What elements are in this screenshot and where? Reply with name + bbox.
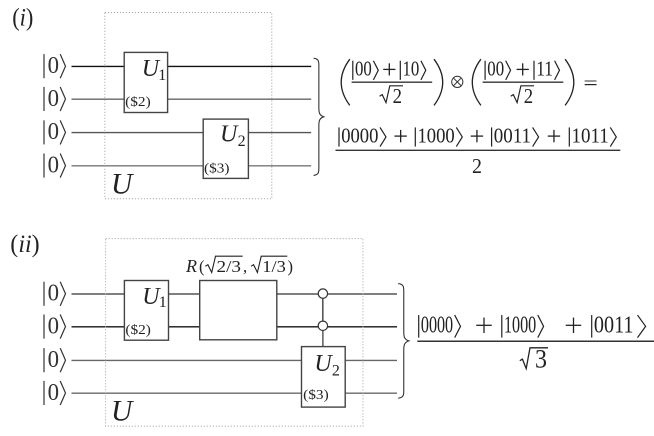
- svg-text:0011: 0011: [594, 312, 634, 339]
- svg-text:(ii): (ii): [10, 229, 39, 258]
- svg-text:0: 0: [48, 151, 59, 178]
- svg-text:0: 0: [48, 52, 59, 79]
- svg-text:U: U: [314, 351, 333, 377]
- svg-text:10: 10: [403, 58, 420, 81]
- svg-text:U: U: [111, 395, 134, 427]
- svg-text:($3): ($3): [303, 388, 329, 403]
- svg-text:11: 11: [536, 58, 553, 81]
- svg-text:3: 3: [535, 345, 547, 374]
- svg-text:1/3: 1/3: [262, 257, 286, 276]
- svg-text:0: 0: [48, 379, 59, 406]
- svg-text:2: 2: [524, 85, 533, 108]
- svg-text:U: U: [111, 168, 134, 200]
- svg-text:0011: 0011: [494, 124, 531, 147]
- svg-text:1011: 1011: [572, 124, 609, 147]
- svg-text:0: 0: [48, 280, 59, 307]
- svg-text:2: 2: [332, 362, 340, 379]
- svg-text:0: 0: [48, 85, 59, 112]
- svg-text:2/3: 2/3: [217, 257, 242, 276]
- svg-text:(: (: [199, 257, 205, 276]
- svg-text:1000: 1000: [418, 124, 455, 147]
- svg-text:00: 00: [487, 58, 504, 81]
- svg-text:,: ,: [243, 257, 247, 276]
- svg-text:0: 0: [48, 346, 59, 373]
- svg-text:1: 1: [158, 67, 166, 84]
- svg-text:1: 1: [159, 294, 167, 311]
- svg-text:($3): ($3): [204, 161, 230, 176]
- svg-text:U: U: [220, 121, 239, 147]
- svg-text:2: 2: [472, 155, 482, 178]
- svg-text:($2): ($2): [125, 95, 151, 110]
- svg-text:1000: 1000: [504, 312, 536, 339]
- svg-text:($2): ($2): [125, 323, 151, 338]
- svg-text:R: R: [185, 256, 197, 276]
- svg-text:0000: 0000: [421, 312, 453, 339]
- svg-text:2: 2: [238, 133, 246, 150]
- svg-text:(i): (i): [12, 3, 33, 31]
- svg-text:): ): [288, 257, 294, 276]
- svg-text:0: 0: [48, 312, 59, 339]
- svg-text:00: 00: [355, 58, 372, 81]
- svg-text:0: 0: [48, 118, 59, 145]
- svg-text:0000: 0000: [341, 124, 378, 147]
- svg-text:2: 2: [393, 85, 402, 108]
